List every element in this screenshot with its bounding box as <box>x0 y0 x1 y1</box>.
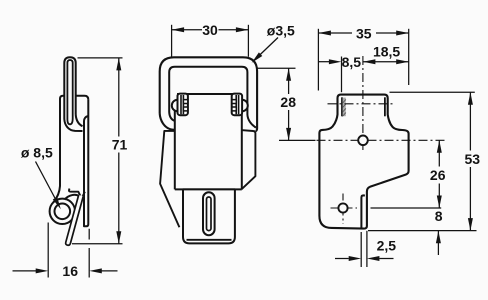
svg-text:53: 53 <box>465 151 481 167</box>
latch plate bottom edge with spring anchor V <box>69 189 85 199</box>
dimension 18,5 <box>363 61 409 63</box>
right flange (flap) of base plate <box>241 130 255 189</box>
upper hole <box>358 136 368 146</box>
wire bail front view outer <box>160 57 257 131</box>
left pivot rivet bump <box>172 100 178 112</box>
lower hole centerlines <box>331 207 358 209</box>
svg-text:26: 26 <box>430 167 446 183</box>
dimension 71 arrows <box>116 58 121 71</box>
spring upper S-bend <box>65 195 82 200</box>
wire bail (side view) inner <box>67 60 72 124</box>
svg-text:16: 16 <box>62 263 78 279</box>
svg-text:71: 71 <box>112 137 128 153</box>
svg-text:35: 35 <box>356 26 372 42</box>
svg-text:ø 8,5: ø 8,5 <box>21 144 53 160</box>
flange inner edge right <box>384 97 386 116</box>
dimension 26 <box>371 140 442 208</box>
left flange of base plate <box>160 131 183 227</box>
dimension 28 <box>257 68 316 140</box>
mounting strip right edges (side) <box>84 100 88 227</box>
centerline vertical <box>362 56 364 153</box>
svg-text:30: 30 <box>202 22 218 38</box>
dimension 16 extension lines <box>13 223 118 278</box>
leader ø 8,5 <box>36 162 58 203</box>
svg-text:2,5: 2,5 <box>377 237 397 253</box>
wire bail front view inner <box>169 67 256 128</box>
wire bail (side view, narrow loop) outer <box>64 57 82 131</box>
dimension 71 extension lines <box>72 58 123 244</box>
leader ø3,5 <box>255 38 279 61</box>
latch body plate front <box>175 94 242 189</box>
right pivot rivet bump <box>242 100 248 112</box>
spring long leg <box>66 195 84 245</box>
slot outer <box>203 192 215 235</box>
flange cut face (hatched strip) <box>343 98 346 117</box>
dimension 35 <box>318 29 408 91</box>
spring coil outer <box>50 199 75 224</box>
right pivot rivet body <box>232 94 242 116</box>
flange inner edge left <box>341 97 343 116</box>
left pivot rivet body <box>178 94 188 116</box>
bottom tab inner fold line <box>187 239 232 241</box>
svg-text:8,5: 8,5 <box>342 54 362 70</box>
dimension 2,5 <box>335 231 394 267</box>
dimension 8 <box>437 231 439 255</box>
tab fold line (bent lip) <box>361 195 365 228</box>
centerline pivot axis <box>328 103 396 105</box>
latch plate (side) top and left edge <box>53 96 88 203</box>
keeper bracket silhouette <box>319 95 408 229</box>
dimension 30 <box>172 25 249 57</box>
bottom tab <box>183 189 235 243</box>
lower hole <box>338 203 347 212</box>
centerline upper hole axis <box>317 139 445 141</box>
svg-text:ø3,5: ø3,5 <box>267 22 295 38</box>
dimension 53 <box>368 92 477 230</box>
dimension 16 arrows <box>36 268 49 273</box>
svg-text:28: 28 <box>280 94 296 110</box>
svg-text:8: 8 <box>435 208 443 224</box>
spring coil inner <box>55 204 71 220</box>
slot inner <box>207 197 212 231</box>
svg-text:18,5: 18,5 <box>373 43 400 59</box>
dimension 8,5 <box>318 57 341 93</box>
